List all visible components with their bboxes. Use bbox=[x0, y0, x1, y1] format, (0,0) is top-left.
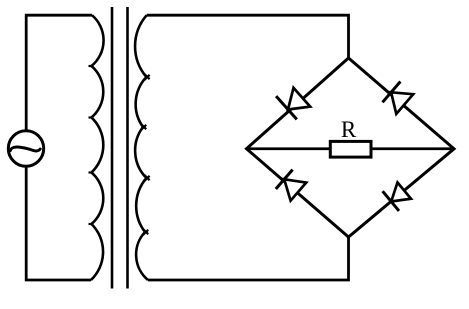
svg-text:R: R bbox=[341, 117, 357, 142]
